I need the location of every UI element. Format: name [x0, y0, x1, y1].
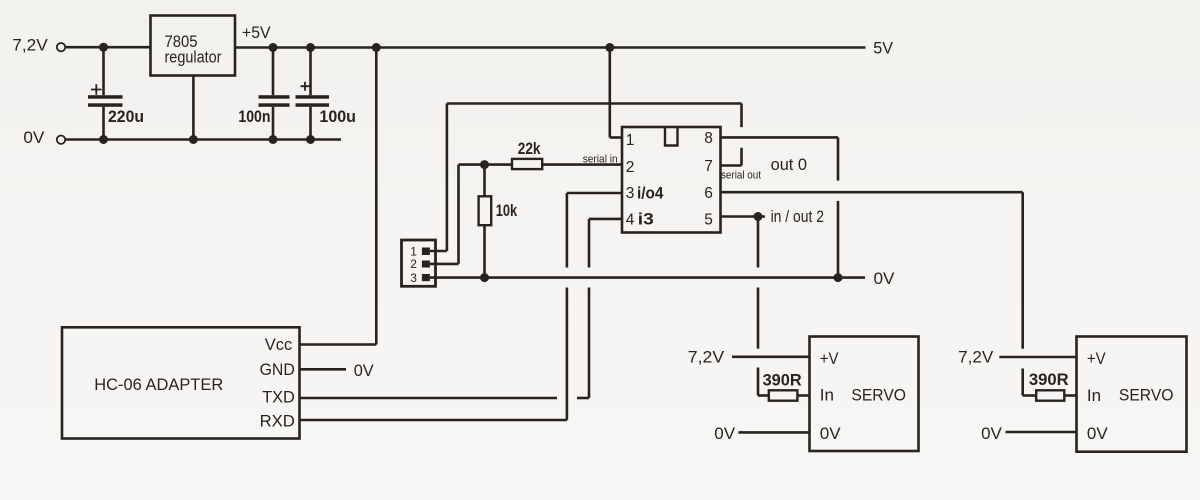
svg-text:out 0: out 0	[771, 155, 807, 174]
svg-text:4: 4	[626, 211, 635, 228]
svg-text:1: 1	[626, 132, 635, 149]
svg-text:3: 3	[626, 185, 635, 202]
svg-text:SERVO: SERVO	[851, 386, 906, 405]
svg-text:0V: 0V	[820, 424, 841, 443]
svg-text:HC-06 ADAPTER: HC-06 ADAPTER	[94, 375, 223, 394]
svg-text:regulator: regulator	[165, 48, 222, 67]
svg-text:0V: 0V	[981, 424, 1002, 443]
svg-text:2: 2	[410, 257, 417, 271]
svg-text:390R: 390R	[763, 371, 802, 390]
svg-text:6: 6	[704, 185, 713, 202]
svg-text:i/o4: i/o4	[637, 184, 664, 203]
svg-text:5: 5	[704, 211, 713, 228]
svg-text:in / out 2: in / out 2	[771, 207, 824, 226]
svg-text:+5V: +5V	[242, 23, 271, 42]
svg-text:+V: +V	[1087, 349, 1106, 368]
svg-text:3: 3	[410, 271, 417, 285]
svg-text:0V: 0V	[874, 269, 896, 288]
svg-text:7,2V: 7,2V	[12, 36, 48, 55]
svg-text:SERVO: SERVO	[1119, 386, 1174, 405]
svg-text:220u: 220u	[108, 107, 144, 126]
svg-text:100u: 100u	[319, 107, 356, 126]
svg-text:serial out: serial out	[721, 169, 761, 181]
svg-text:5V: 5V	[873, 39, 893, 58]
svg-text:0V: 0V	[23, 128, 45, 147]
svg-text:In: In	[1087, 386, 1101, 405]
svg-text:Vcc: Vcc	[265, 335, 293, 354]
svg-text:GND: GND	[260, 360, 295, 379]
svg-text:TXD: TXD	[262, 388, 295, 407]
svg-text:0V: 0V	[354, 361, 375, 380]
svg-text:+V: +V	[820, 349, 839, 368]
svg-text:7,2V: 7,2V	[958, 348, 994, 367]
svg-text:0V: 0V	[1087, 424, 1108, 443]
svg-text:RXD: RXD	[260, 412, 295, 431]
svg-text:2: 2	[626, 159, 635, 176]
svg-text:100n: 100n	[238, 107, 270, 126]
svg-text:22k: 22k	[518, 139, 541, 158]
svg-text:7,2V: 7,2V	[688, 348, 725, 367]
svg-text:In: In	[820, 386, 834, 405]
svg-text:8: 8	[704, 130, 713, 147]
svg-text:0V: 0V	[714, 424, 735, 443]
svg-text:7: 7	[704, 158, 713, 175]
svg-text:10k: 10k	[496, 201, 518, 220]
svg-text:390R: 390R	[1029, 370, 1069, 389]
svg-text:i3: i3	[638, 209, 654, 228]
